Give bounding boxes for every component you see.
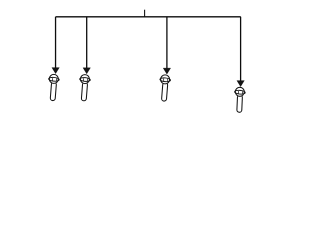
drop wire 2	[86, 17, 88, 69]
hex nut band	[234, 90, 245, 95]
drop wire 4	[240, 17, 242, 82]
glow plug G1	[48, 68, 59, 101]
arrowhead	[52, 68, 59, 74]
hex nut band	[48, 77, 59, 82]
plug body	[161, 83, 167, 102]
hex nut band	[80, 77, 91, 82]
terminal head	[235, 87, 244, 96]
hex nut band	[160, 77, 171, 82]
arrowhead	[237, 81, 244, 87]
terminal head	[80, 75, 89, 84]
plug body	[81, 82, 87, 101]
nut facet lines	[83, 78, 87, 81]
bus wire (horizontal feed)	[56, 16, 241, 18]
terminal head	[161, 75, 170, 84]
glow plug G3	[160, 68, 171, 101]
nut facet lines	[164, 79, 168, 82]
arrowhead	[83, 68, 90, 74]
plug body	[237, 95, 243, 112]
terminal head	[49, 74, 58, 83]
drop wire 3	[166, 17, 168, 69]
glow plug G4	[234, 81, 245, 113]
drop wire 1	[55, 17, 57, 69]
supply stub wire	[144, 10, 146, 17]
arrowhead	[163, 68, 170, 74]
glow plug G2	[80, 68, 91, 101]
nut facet lines	[238, 91, 242, 94]
nut facet lines	[52, 78, 56, 81]
plug body	[50, 82, 56, 101]
